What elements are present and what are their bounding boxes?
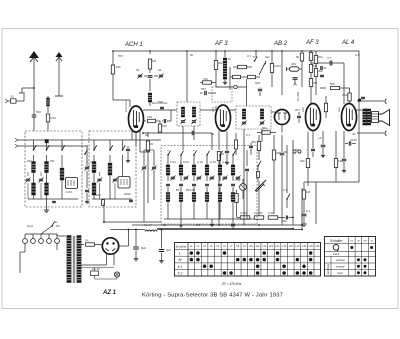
band switch contact 1 box2 bbox=[93, 140, 95, 150]
svg-text:L19: L19 bbox=[309, 245, 314, 248]
wire AVC line upper bbox=[18, 139, 161, 141]
capacitor tone to ground bbox=[302, 214, 307, 217]
osc padder capacitor col 6 bbox=[231, 184, 235, 187]
resistor chain second column upper bbox=[315, 51, 317, 55]
svg-text:μF: μF bbox=[318, 136, 322, 140]
band coil lower box2 col1 bbox=[92, 183, 96, 195]
resistor 0.63 antenna 2 bbox=[46, 114, 49, 122]
svg-text:50k: 50k bbox=[262, 126, 267, 130]
band coil col3 box1 bbox=[61, 155, 63, 167]
antenna 1 bbox=[33, 57, 35, 131]
ground osc box left bbox=[180, 219, 182, 223]
osc padder capacitor col 4 bbox=[205, 184, 209, 187]
svg-text:L20: L20 bbox=[315, 245, 320, 248]
wire feedback from bus end bbox=[358, 97, 360, 182]
speaker terminal bottom bbox=[357, 132, 384, 134]
svg-text:70k: 70k bbox=[203, 77, 208, 81]
rectifier pins bbox=[106, 253, 108, 265]
potentiometer volume diagonal bbox=[255, 180, 266, 191]
svg-text:AF3: AF3 bbox=[301, 107, 305, 112]
oscillator coil col2 box2 bbox=[109, 155, 111, 162]
IF1 trimmer right bbox=[192, 120, 196, 123]
svg-text:R2: R2 bbox=[56, 224, 60, 228]
wire IF2 primary feed bbox=[246, 79, 248, 106]
wire screen row AF3 bbox=[216, 86, 247, 88]
trimmer pair at oscillator top bbox=[138, 75, 142, 78]
svg-text:AZ 1: AZ 1 bbox=[102, 290, 117, 296]
capacitor cathode bypass ACH1 bbox=[126, 149, 130, 152]
wire osc box right column bbox=[246, 150, 248, 166]
svg-text:2W: 2W bbox=[50, 159, 55, 163]
wire distribution bus 1 bbox=[132, 224, 302, 226]
band switch contact 3 box1 bbox=[61, 140, 63, 150]
dashed box band filter 2 oscillator bbox=[89, 131, 136, 207]
band switch contact 3 box2 bbox=[122, 140, 124, 150]
osc switch contact col 2 bbox=[181, 151, 184, 155]
AVC terminal arrow upper bbox=[15, 138, 18, 140]
osc switch contact col 6 bbox=[233, 151, 236, 155]
IF2 secondary coil bbox=[260, 109, 263, 119]
resistor 20k ACH1 screen bbox=[111, 65, 114, 74]
dashed box IF transformer 1 bbox=[177, 102, 200, 126]
fuse Fu 15 heater bbox=[91, 271, 99, 276]
resistor beside AF3-2 bbox=[324, 103, 327, 112]
svg-text:10k: 10k bbox=[162, 124, 167, 128]
wire ACH1 grid drop bbox=[139, 131, 141, 152]
resistor 10k bbox=[156, 120, 160, 122]
svg-text:AL4: AL4 bbox=[337, 107, 341, 112]
wire ACH1 anode link bbox=[113, 99, 130, 101]
svg-text:60: 60 bbox=[150, 142, 154, 146]
Empfang rotated label bbox=[330, 257, 332, 277]
wire distribution bus 2 bbox=[148, 228, 293, 230]
wire IF2 bottom drops bbox=[243, 129, 245, 150]
svg-text:Schalter: Schalter bbox=[330, 239, 343, 243]
svg-text:1M: 1M bbox=[306, 190, 311, 194]
output transformer secondary winding bbox=[367, 109, 370, 125]
svg-text:ECO-ACH: ECO-ACH bbox=[124, 100, 128, 112]
wire lamp leads bbox=[242, 190, 244, 199]
junction block AVC bbox=[45, 140, 48, 143]
svg-text:50: 50 bbox=[190, 53, 194, 57]
svg-text:207: 207 bbox=[96, 193, 101, 197]
wire phono column bbox=[286, 145, 288, 192]
choke Fu 14 filter bbox=[111, 229, 303, 231]
svg-text:2000: 2000 bbox=[124, 192, 131, 196]
osc coil lower col 3 bbox=[193, 187, 195, 192]
trimmer capacitor 2 box1 bbox=[39, 179, 43, 182]
svg-text:5k: 5k bbox=[211, 132, 215, 136]
svg-text:5k: 5k bbox=[296, 55, 300, 59]
osc trimmer col 4 bbox=[206, 175, 208, 181]
wire selector to transformer bbox=[56, 234, 58, 236]
switch table contact dots bbox=[190, 251, 194, 255]
svg-text:L: L bbox=[179, 252, 181, 256]
svg-text:0.63: 0.63 bbox=[170, 160, 176, 164]
capacitor oscillator grid bbox=[149, 69, 151, 73]
svg-text:0.63: 0.63 bbox=[50, 116, 56, 120]
osc coil lower col 6 bbox=[232, 187, 234, 192]
capacitor 500 ACH1 out bbox=[160, 107, 164, 110]
coil oscillator feedback bbox=[149, 79, 151, 91]
resistor 1M right of osc box bbox=[235, 140, 238, 149]
svg-text:20k: 20k bbox=[116, 65, 121, 69]
osc trimmer col 5 bbox=[219, 175, 221, 181]
osc coil lower col 1 bbox=[167, 187, 169, 192]
switch 9V mains tap bbox=[255, 51, 257, 57]
capacitor 500 on antenna lead bbox=[32, 115, 37, 116]
wire osc box bottom bus bbox=[164, 218, 254, 220]
knob table row lines bbox=[325, 243, 376, 245]
svg-text:4700: 4700 bbox=[350, 138, 357, 142]
capacitor 5k mixer bbox=[164, 119, 167, 123]
knob icon bbox=[333, 245, 339, 251]
svg-text:20k: 20k bbox=[318, 55, 323, 59]
svg-text:4μF: 4μF bbox=[166, 248, 171, 252]
resistor 4k bbox=[257, 172, 260, 178]
coil pack box1 bbox=[66, 178, 78, 189]
switch radio-phono bbox=[258, 161, 261, 166]
dashed box IF transformer 2 bbox=[236, 106, 271, 129]
capacitor coupling to AL4 grid bbox=[311, 62, 344, 64]
resistor 50k AL4 grid leak bbox=[320, 87, 326, 89]
svg-text:30: 30 bbox=[136, 68, 140, 72]
osc coil lower col 2 bbox=[180, 187, 182, 192]
antenna 2 bbox=[58, 57, 60, 96]
svg-text:L13: L13 bbox=[269, 245, 274, 248]
output transformer primary winding bbox=[363, 109, 366, 125]
wire selector bottom leads bbox=[24, 243, 26, 252]
tube AF3 first bbox=[216, 105, 231, 131]
osc coil col 3 bbox=[193, 155, 195, 165]
wire AF3 to IF2 bbox=[230, 109, 236, 111]
wire detector line with capacitor bbox=[143, 132, 212, 134]
trimmer capacitor box2 col1 bbox=[97, 179, 101, 182]
wire ACH1 output right bbox=[143, 109, 177, 111]
capacitor small near AF3-2 bbox=[320, 75, 324, 78]
electrolytic capacitor 8uF first bbox=[135, 230, 137, 247]
resistor 2M volume bbox=[272, 150, 275, 160]
osc coil col 4 bbox=[206, 155, 208, 165]
capacitor under osc box bbox=[232, 219, 234, 223]
svg-text:Dr: Dr bbox=[228, 57, 231, 61]
AVC terminal arrow lower bbox=[15, 144, 18, 146]
svg-text:BF14P: BF14P bbox=[186, 188, 195, 192]
resistor 27k AF stage bbox=[257, 142, 260, 151]
speaker horn bbox=[379, 110, 390, 126]
osc switch contact col 4 bbox=[207, 151, 210, 155]
resistor chain 2 on x311 bbox=[310, 61, 312, 65]
capacitor tone across output bbox=[361, 97, 365, 100]
knob table column lines bbox=[348, 237, 350, 277]
svg-text:Schalter: Schalter bbox=[176, 245, 188, 249]
svg-text:L12: L12 bbox=[262, 245, 267, 248]
output transformer core bbox=[366, 108, 368, 126]
band switch contact 2 box1 bbox=[46, 140, 48, 150]
svg-text:L17: L17 bbox=[295, 245, 300, 248]
band coil lower 2 box1 bbox=[45, 183, 49, 195]
resistor 1M oscillator grid bbox=[149, 51, 151, 54]
potentiometer tone control bbox=[256, 184, 264, 192]
tube AB2 duo-diode bbox=[275, 110, 290, 125]
resistor AL4 cathode bbox=[334, 159, 337, 168]
svg-text:0.1: 0.1 bbox=[253, 55, 258, 59]
svg-text:50k: 50k bbox=[282, 219, 287, 223]
wire AVC line lower bbox=[18, 145, 88, 147]
mains selector plugs bbox=[23, 239, 28, 244]
speaker terminal top bbox=[357, 100, 384, 102]
svg-text:L16: L16 bbox=[289, 245, 294, 248]
electrolytic capacitor 4uF second bbox=[161, 230, 163, 249]
resistor 207 box2 bbox=[102, 200, 105, 206]
svg-text:4k7: 4k7 bbox=[265, 55, 270, 59]
capacitor 500 screen bypass bbox=[259, 86, 261, 89]
svg-text:1M: 1M bbox=[313, 64, 318, 68]
tube AF3 second bbox=[306, 104, 321, 131]
resistor 0.5M AB2 bbox=[270, 64, 273, 73]
osc padder capacitor col 2 bbox=[179, 184, 183, 187]
pilot lamp circle bbox=[114, 272, 119, 277]
svg-text:EC-AB2: EC-AB2 bbox=[296, 91, 300, 101]
osc coil col 2 bbox=[180, 155, 182, 165]
capacitor 250 detector filter bbox=[249, 146, 253, 149]
wire right AF verticals bbox=[292, 140, 294, 225]
osc trimmer col 3 bbox=[193, 175, 195, 181]
svg-text:L14: L14 bbox=[275, 245, 280, 248]
osc trimmer col 6 bbox=[232, 175, 234, 181]
svg-text:4.13: 4.13 bbox=[210, 160, 216, 164]
svg-text:AL 4: AL 4 bbox=[341, 40, 355, 46]
svg-text:4.13: 4.13 bbox=[197, 160, 203, 164]
ground osc box bbox=[211, 219, 213, 222]
wire AF coupling run bbox=[258, 181, 260, 217]
wire AB2 down bbox=[281, 125, 283, 133]
svg-text:AF3: AF3 bbox=[211, 107, 215, 112]
dial lamp scale bbox=[240, 184, 247, 191]
ground band filter box1 bbox=[46, 199, 48, 207]
earth terminal stub bbox=[22, 87, 34, 89]
resistor 50k detector load bbox=[262, 131, 271, 134]
capacitor AL4 cathode bypass bbox=[342, 159, 347, 162]
band coil lower 1 box1 bbox=[32, 183, 36, 195]
svg-text:KW: KW bbox=[350, 241, 353, 243]
IF2 primary trimmer bbox=[242, 122, 246, 125]
switch table row lines bbox=[175, 249, 321, 251]
switch table header column line bbox=[187, 243, 189, 277]
ground tone network bbox=[303, 221, 305, 224]
mains switch R1 R2 bbox=[52, 222, 55, 226]
IF1 secondary coil bbox=[192, 107, 195, 117]
wire ACH1 cathode drop bbox=[131, 131, 133, 140]
svg-text:K 1: K 1 bbox=[178, 265, 183, 269]
variable capacitor gang 1 bbox=[85, 167, 89, 170]
resistor AF3 cathode bbox=[217, 152, 220, 161]
resistor anode load upper bbox=[238, 65, 247, 68]
svg-text:2W: 2W bbox=[27, 159, 32, 163]
wire volume feed bbox=[273, 170, 275, 214]
triode-hexode tube ACH1 bbox=[129, 106, 144, 132]
resistor AF3-2 cathode bbox=[306, 159, 309, 168]
resistor tone network bbox=[302, 190, 305, 199]
wire box1 bottom bus bbox=[28, 198, 78, 200]
switch gang column bbox=[85, 150, 88, 154]
junction dots top bus bbox=[112, 50, 114, 52]
wire B+ rail right bend bbox=[301, 188, 303, 230]
svg-text:34: 34 bbox=[158, 68, 162, 72]
trimmer capacitor 1 box1 bbox=[26, 179, 30, 182]
svg-text:L15: L15 bbox=[282, 245, 287, 248]
wire mixer trimmer top link bbox=[144, 149, 154, 151]
capacitor gang padder bbox=[85, 190, 89, 193]
oscillator coil pack box2 bbox=[122, 155, 124, 176]
osc padder capacitor col 1 bbox=[166, 184, 170, 187]
resistor chain 1 on x311 bbox=[310, 51, 312, 52]
svg-text:Empfang: Empfang bbox=[327, 263, 330, 274]
svg-text:0.63: 0.63 bbox=[66, 190, 72, 194]
band coil upper 1 box1 bbox=[33, 155, 35, 161]
band switch contact 2 box2 bbox=[109, 140, 111, 150]
capacitor bypass second chain bbox=[320, 66, 323, 70]
capacitor box1 bottom bbox=[52, 201, 56, 204]
wire IF2 to AB2 bbox=[271, 111, 276, 113]
svg-text:0.1: 0.1 bbox=[306, 209, 311, 213]
svg-text:30k: 30k bbox=[300, 159, 305, 163]
svg-text:4.7: 4.7 bbox=[327, 56, 332, 60]
svg-text:0.25M: 0.25M bbox=[254, 211, 263, 215]
osc coil col 5 bbox=[219, 155, 221, 165]
svg-text:mech: mech bbox=[333, 252, 340, 256]
tube AL4 output pentode bbox=[342, 104, 357, 131]
svg-text:0.1: 0.1 bbox=[246, 133, 251, 137]
power transformer secondary winding bbox=[77, 236, 81, 283]
svg-text:2A: 2A bbox=[85, 239, 89, 243]
svg-text:ACH 1: ACH 1 bbox=[124, 42, 143, 48]
IF2 primary coil bbox=[242, 109, 245, 119]
svg-text:BF: BF bbox=[176, 188, 180, 192]
Empfang rows dots bbox=[357, 258, 360, 261]
junction dots rails bbox=[301, 224, 303, 226]
dashed box oscillator pad bbox=[212, 87, 232, 102]
osc trimmer col 1 bbox=[167, 175, 169, 181]
resistor 60 under mixer bbox=[147, 132, 149, 137]
svg-text:AF 3: AF 3 bbox=[305, 40, 319, 46]
trimmer capacitor near AB2 bbox=[293, 77, 298, 80]
mains selector strap bbox=[25, 233, 57, 235]
svg-text:Körting - Supra-Selector 3B SB: Körting - Supra-Selector 3B SB 4347 W - … bbox=[142, 293, 283, 299]
coil RF choke AF3 bbox=[224, 51, 226, 57]
trimmer capacitor mixer left bbox=[142, 167, 146, 170]
wire AF3 plate rise bbox=[229, 67, 231, 77]
test point circle bbox=[234, 85, 237, 88]
IF1 trimmer left bbox=[181, 120, 185, 123]
svg-text:Fu 14: Fu 14 bbox=[144, 223, 152, 227]
knob row dots bbox=[350, 246, 353, 249]
osc switch contact col 3 bbox=[194, 151, 197, 155]
wire heater leads to AZ1 bbox=[81, 264, 107, 266]
speaker coil box bbox=[372, 112, 379, 123]
svg-text:M: M bbox=[179, 258, 182, 262]
wire IF1 secondary drops bbox=[182, 126, 184, 150]
resistor 0.3M row third bbox=[268, 216, 278, 219]
wire mixer vertical bbox=[170, 110, 172, 121]
svg-text:2M: 2M bbox=[313, 81, 318, 85]
wire AZ1 cathode to B+ rail bbox=[119, 245, 129, 247]
wire IF1 to AF3 grid bbox=[200, 109, 216, 111]
resistor chain second column lower bbox=[315, 64, 317, 69]
osc switch contact col 5 bbox=[220, 151, 223, 155]
resistor 20k AF3 screen bbox=[214, 61, 217, 70]
resistor chain 3 on x311 bbox=[310, 73, 312, 79]
wire AL4 cathode to ground bus bbox=[335, 176, 337, 182]
svg-text:K 2: K 2 bbox=[178, 272, 183, 276]
svg-text:KGB: KGB bbox=[342, 93, 348, 97]
resistor 2A anode fuse bbox=[81, 244, 84, 246]
capacitor 5000 coupling bbox=[280, 153, 285, 156]
osc padder capacitor col 5 bbox=[218, 184, 222, 187]
switch tone 0.1uF bbox=[287, 194, 290, 199]
capacitor under AF3-2 bbox=[311, 149, 315, 152]
wire IF2 primary to rail bbox=[243, 150, 245, 225]
potentiometer diagonal IF gain bbox=[259, 61, 266, 75]
svg-text:557: 557 bbox=[118, 54, 123, 58]
svg-text:250: 250 bbox=[251, 140, 256, 144]
junction block speaker line bbox=[358, 99, 360, 101]
capacitor AF3 cathode bypass bbox=[225, 151, 229, 154]
IF1 primary coil bbox=[181, 107, 184, 117]
wire AF3 cathode drop bbox=[218, 131, 220, 150]
band coil upper box2 col1 bbox=[93, 155, 95, 161]
svg-text:L10: L10 bbox=[249, 245, 254, 248]
wire B+ drop to ACH1 anode bbox=[112, 51, 114, 100]
svg-text:100: 100 bbox=[147, 115, 152, 119]
coil antenna 2 input bbox=[47, 98, 50, 106]
wire bus drop to IF1 bbox=[186, 51, 188, 102]
resistor above AL4 bbox=[344, 87, 350, 89]
osc coil lower col 4 bbox=[206, 187, 208, 192]
wire B+ drop to AF3 bbox=[215, 51, 217, 60]
svg-text:40: 40 bbox=[352, 132, 356, 136]
trimmer capacitor box2 col2 bbox=[113, 179, 117, 182]
svg-text:454: 454 bbox=[291, 62, 296, 66]
osc switch contact col 1 bbox=[168, 151, 171, 155]
band coil upper 2 box1 bbox=[46, 155, 48, 161]
svg-text:L18: L18 bbox=[302, 245, 307, 248]
wire AVC return bus bbox=[103, 221, 161, 223]
svg-text:AB 2: AB 2 bbox=[273, 41, 288, 47]
osc coil col 6 bbox=[232, 155, 234, 165]
svg-text:0.5M: 0.5M bbox=[274, 64, 281, 68]
svg-text:4.13: 4.13 bbox=[222, 160, 228, 164]
svg-text:207: 207 bbox=[295, 108, 300, 112]
band switch contact 1 box1 bbox=[33, 140, 35, 150]
IF2 secondary trimmer bbox=[260, 122, 264, 125]
power transformer core bbox=[72, 236, 74, 283]
resistor grid stopper row bbox=[233, 75, 241, 78]
knob table frame bbox=[325, 237, 376, 277]
wire AL4 anode to transformer bbox=[356, 109, 362, 111]
svg-text:20k: 20k bbox=[218, 61, 223, 65]
svg-text:1M: 1M bbox=[152, 59, 157, 63]
wire top B+ bus bbox=[113, 50, 359, 52]
resistor 0.3M row first bbox=[240, 216, 250, 219]
svg-text:Fu 15: Fu 15 bbox=[92, 267, 100, 271]
wire phono jack circles bbox=[293, 150, 296, 153]
wire box2 bottom bus bbox=[92, 198, 132, 200]
capacitor AVC bypass bbox=[200, 92, 203, 94]
resistor AVC 70k between IF1 and AF3 bbox=[200, 82, 203, 84]
svg-text:0.63: 0.63 bbox=[183, 160, 189, 164]
capacitor between AB2 and AF3-2 bbox=[297, 116, 301, 119]
